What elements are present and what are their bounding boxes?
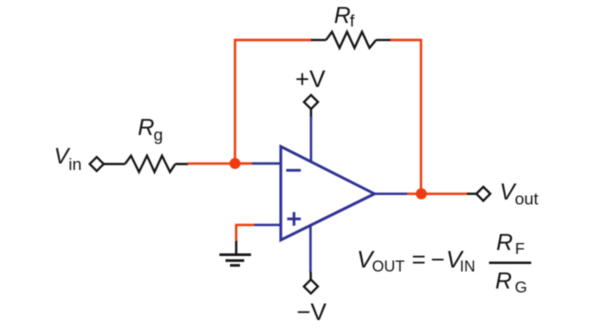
wire: Rf right lead (black) <box>376 39 391 41</box>
label Vin <box>54 144 82 175</box>
svg-text:=: = <box>412 247 426 274</box>
node A (junction dot at inverting input) <box>230 158 241 169</box>
formula numerator RF <box>496 229 525 258</box>
svg-text:out: out <box>515 190 539 209</box>
svg-text:R: R <box>334 2 351 28</box>
svg-text:R: R <box>138 114 155 140</box>
label Vout <box>500 179 539 209</box>
label Rg <box>138 114 163 145</box>
svg-text:R: R <box>495 268 512 294</box>
terminal Vin (diamond) <box>90 157 104 171</box>
wire: top right run and right vertical down to node B (red) <box>390 40 421 194</box>
svg-text:in: in <box>69 155 82 174</box>
svg-text:−: − <box>431 247 445 274</box>
svg-text:+V: +V <box>295 66 325 93</box>
formula: Vout = -Vin x Rf/Rg <box>357 247 476 276</box>
terminal +V (diamond) <box>304 95 318 109</box>
wire: op-amp to -V supply (blue) <box>309 224 312 280</box>
wire: non-inverting input to ground elbow (blue then orange) <box>236 225 281 255</box>
resistor Rf <box>326 32 376 48</box>
terminal Vout (diamond) <box>476 187 490 201</box>
formula denominator RG <box>495 268 527 297</box>
svg-text:OUT: OUT <box>372 259 405 276</box>
wire: Rf left lead (black) <box>311 39 326 41</box>
svg-text:G: G <box>515 279 527 296</box>
wire: +V supply to op-amp (blue) <box>310 109 312 163</box>
svg-text:g: g <box>154 126 163 145</box>
node B (output junction dot) <box>416 188 427 199</box>
svg-text:F: F <box>515 241 525 258</box>
terminal -V (diamond) <box>304 280 318 294</box>
ground <box>219 255 251 266</box>
label Rf <box>334 2 355 31</box>
wire: op-amp output to node B (blue) <box>374 193 408 195</box>
wire: Rg to node A (orange segment) <box>188 162 236 164</box>
wire: Vin terminal to Rg <box>104 163 125 165</box>
wire: node A to op-amp inverting input (orange then blue) <box>235 162 281 164</box>
op-amp inverting input symbol (minus) <box>286 169 301 172</box>
svg-text:f: f <box>350 12 355 31</box>
op-amp U1 (triangle) <box>281 147 375 241</box>
svg-text:IN: IN <box>460 259 476 276</box>
formula fraction bar <box>489 262 531 264</box>
wire: node B to Vout terminal (orange then black) <box>407 193 476 195</box>
resistor Rg <box>125 156 175 172</box>
wire: feedback left vertical and top run (red) <box>235 40 312 164</box>
svg-text:−V: −V <box>297 299 327 326</box>
op-amp non-inverting input symbol (plus) <box>287 212 301 226</box>
svg-text:R: R <box>496 229 513 255</box>
wire: Rg to node A (black lead) <box>175 163 188 165</box>
